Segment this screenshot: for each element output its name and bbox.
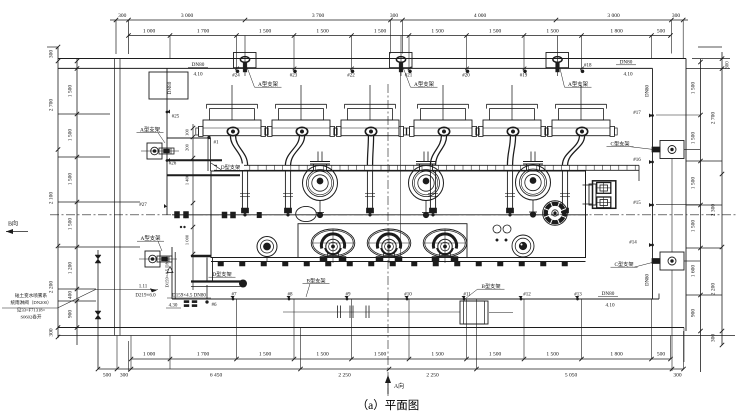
- drop pipe pair 4: [429, 170, 431, 212]
- svg-text:DN80: DN80: [646, 274, 651, 286]
- fin unit 6: [580, 85, 582, 120]
- fan 3: [423, 229, 467, 257]
- platform line below pipe: [283, 311, 460, 313]
- svg-text:#21: #21: [405, 74, 413, 79]
- horizontal centerline: [50, 214, 738, 216]
- svg-text:#27: #27: [139, 203, 147, 208]
- middle pipe: [172, 214, 588, 216]
- dark pipe into machine lower: [167, 174, 240, 176]
- svg-text:A型支架: A型支架: [258, 80, 279, 88]
- grid line x=400.5: [400, 68, 402, 257]
- machine corner step: [211, 163, 223, 171]
- svg-text:2 300: 2 300: [711, 204, 717, 217]
- svg-text:1 500: 1 500: [691, 220, 697, 233]
- svg-text:1 000: 1 000: [143, 352, 156, 358]
- svg-text:C型支架: C型支架: [614, 260, 633, 268]
- svg-text:（a）平面图: （a）平面图: [357, 399, 420, 412]
- svg-text:1 500: 1 500: [374, 29, 387, 35]
- fan 1: [311, 229, 355, 257]
- top pipe DN80: [58, 67, 653, 69]
- svg-text:B向: B向: [8, 220, 18, 228]
- svg-text:#16: #16: [633, 158, 641, 163]
- drop pipe pair 6: [561, 170, 563, 212]
- right riser pipe DN80: [652, 68, 654, 299]
- vertical centerline: [387, 84, 389, 396]
- pump 2: [409, 166, 444, 201]
- svg-text:1 500: 1 500: [489, 352, 502, 358]
- fin unit 2: [300, 85, 302, 120]
- svg-text:A型支架: A型支架: [568, 80, 589, 88]
- fan 2: [367, 229, 411, 257]
- svg-text:1 200: 1 200: [68, 262, 74, 275]
- pipe support marks: [337, 306, 339, 319]
- hoses from fin unit 6: [562, 136, 579, 166]
- svg-text:300: 300: [726, 61, 731, 69]
- small circle pair: [493, 225, 501, 233]
- machine feet: [218, 262, 224, 267]
- lower left suction bar: [206, 258, 208, 281]
- svg-text:D型支架: D型支架: [221, 163, 240, 171]
- internal dimension chain: [192, 124, 194, 290]
- svg-text:4.10: 4.10: [605, 303, 614, 309]
- grid x=672 lower: [671, 159, 673, 253]
- hoses from fin unit 5: [507, 136, 510, 166]
- svg-text:A型支架: A型支架: [140, 126, 161, 134]
- left riser pipe upper: [166, 68, 168, 214]
- svg-text:2 200: 2 200: [49, 281, 55, 294]
- svg-text:#20: #20: [462, 74, 470, 79]
- svg-text:1 500: 1 500: [374, 352, 387, 358]
- svg-text:#25: #25: [172, 115, 180, 120]
- svg-text:D型支架: D型支架: [212, 270, 231, 278]
- svg-text:1 500: 1 500: [68, 218, 74, 231]
- svg-text:300: 300: [118, 13, 127, 19]
- right outer dimension column: [721, 52, 723, 345]
- svg-text:2 700: 2 700: [49, 99, 55, 112]
- svg-text:4 000: 4 000: [474, 13, 487, 19]
- bottom pipe DN80: [172, 298, 659, 300]
- svg-text:1 500: 1 500: [691, 82, 697, 95]
- building bottom axis line: [58, 335, 735, 337]
- left tick stub lines: [58, 113, 110, 115]
- tiny dots: [496, 239, 499, 242]
- pump 3: [516, 165, 551, 200]
- note leader: [2, 307, 58, 309]
- svg-text:1 500: 1 500: [68, 173, 74, 186]
- pipe branch to machine: [167, 137, 208, 139]
- svg-text:5 050: 5 050: [565, 373, 578, 379]
- svg-text:3 000: 3 000: [181, 13, 194, 19]
- fin unit 5: [511, 85, 513, 120]
- svg-text:500: 500: [657, 29, 666, 35]
- svg-text:2 700: 2 700: [711, 112, 717, 125]
- svg-text:900: 900: [68, 310, 74, 319]
- A-type support box 2 on top pipe: [390, 53, 413, 68]
- hoses from fin unit 3: [367, 136, 368, 166]
- svg-text:#17: #17: [633, 111, 641, 116]
- svg-text:B型支架: B型支架: [481, 282, 500, 290]
- svg-text:2 200: 2 200: [711, 283, 717, 296]
- svg-text:#18: #18: [584, 64, 592, 69]
- C-type support box upper: [660, 141, 684, 159]
- dark pipe into machine upper: [167, 159, 222, 161]
- svg-text:#22: #22: [347, 74, 355, 79]
- drop pipe pair 3: [366, 170, 368, 212]
- svg-text:1.11: 1.11: [139, 285, 148, 290]
- svg-text:1 800: 1 800: [610, 29, 623, 35]
- A-type support box 1 on top pipe: [234, 53, 257, 68]
- top extension lines: [115, 20, 117, 54]
- svg-text:1 500: 1 500: [546, 352, 559, 358]
- rail right drop: [638, 165, 640, 181]
- dimension row B bottom: [98, 368, 684, 370]
- handwheel dark circle: [543, 201, 568, 226]
- svg-text:1 600: 1 600: [691, 265, 697, 278]
- drop line to bottom pipe: [206, 285, 208, 299]
- svg-text:300: 300: [711, 334, 717, 343]
- svg-text:1 500: 1 500: [489, 29, 502, 35]
- fan housing box: [298, 224, 467, 258]
- grid stub bottom x=128.6: [128, 341, 130, 372]
- svg-text:1 500: 1 500: [316, 352, 329, 358]
- grid stub bottom right corner: [683, 328, 685, 363]
- svg-text:2 250: 2 250: [426, 373, 439, 379]
- svg-text:6 450: 6 450: [210, 373, 223, 379]
- svg-text:#15: #15: [633, 201, 641, 206]
- anchor marks at pipe start: [184, 301, 189, 303]
- DN80 box left: [149, 72, 188, 99]
- A-type support symbol left lower: [139, 258, 177, 260]
- C-type support box lower: [660, 252, 684, 270]
- svg-text:1 800: 1 800: [610, 352, 623, 358]
- svg-text:500: 500: [657, 352, 666, 358]
- svg-text:#6: #6: [212, 303, 218, 308]
- svg-text:#26: #26: [169, 162, 177, 167]
- svg-text:#14: #14: [629, 241, 637, 246]
- svg-text:C型支架: C型支架: [610, 140, 629, 148]
- building bottom wall: [58, 327, 684, 329]
- svg-text:500: 500: [103, 373, 112, 379]
- fin unit 1: [231, 85, 233, 120]
- svg-text:B型支架: B型支架: [306, 277, 325, 285]
- drop pipe pair 5: [506, 170, 508, 212]
- triangle symbol: [167, 267, 173, 273]
- left outer dimension column: [57, 47, 59, 338]
- valve on pipe x=98 upper: [95, 255, 101, 263]
- svg-text:1 500: 1 500: [316, 29, 329, 35]
- left pipe x=98: [97, 250, 99, 369]
- svg-text:DN80: DN80: [646, 85, 651, 97]
- pump 1: [303, 166, 338, 201]
- machine left edge upper: [207, 138, 209, 171]
- svg-text:4.10: 4.10: [623, 72, 632, 78]
- svg-text:#24: #24: [232, 74, 240, 79]
- svg-text:1 700: 1 700: [197, 29, 210, 35]
- svg-text:1 500: 1 500: [259, 352, 272, 358]
- left riser pipe lower: [171, 247, 173, 299]
- bottom extension lines: [236, 299, 238, 359]
- valve on pipe x=98 lower: [95, 311, 101, 319]
- svg-text:1 500: 1 500: [691, 132, 697, 145]
- label D型支架 on rail: [217, 164, 244, 171]
- svg-text:2 250: 2 250: [338, 373, 351, 379]
- ellipse fitting: [296, 206, 317, 221]
- right inner dimension column: [700, 59, 702, 373]
- svg-text:300: 300: [390, 13, 399, 19]
- A-type support box 3 on top pipe: [546, 53, 569, 68]
- svg-text:#19: #19: [520, 74, 528, 79]
- svg-text:3 000: 3 000: [607, 13, 620, 19]
- small pump bottom right: [512, 235, 534, 257]
- svg-text:统雨淋阀（DN200）: 统雨淋阀（DN200）: [10, 299, 51, 306]
- svg-text:A向: A向: [394, 382, 404, 390]
- svg-text:A型支架: A型支架: [414, 80, 435, 88]
- B-type support box: [460, 301, 488, 324]
- svg-text:300: 300: [673, 373, 682, 379]
- svg-text:#23: #23: [290, 74, 298, 79]
- machine body outline: [211, 171, 586, 258]
- svg-text:1 500: 1 500: [546, 29, 559, 35]
- A-type support symbol left upper: [141, 150, 179, 152]
- fin unit 4: [442, 85, 444, 120]
- svg-text:1 500: 1 500: [691, 177, 697, 190]
- svg-text:#1: #1: [214, 141, 220, 146]
- svg-text:D219×6.0: D219×6.0: [135, 294, 156, 299]
- svg-text:300: 300: [49, 50, 55, 59]
- svg-text:D159×4.5 DN80: D159×4.5 DN80: [165, 256, 170, 288]
- dimension row 1 top: [110, 19, 688, 21]
- svg-text:1 000: 1 000: [185, 234, 190, 245]
- building top wall: [58, 58, 686, 60]
- machine bottom rail: [211, 261, 586, 263]
- target circle fitting: [257, 237, 277, 257]
- dimension row A bottom: [131, 358, 671, 360]
- hoses from fin unit 2: [285, 136, 299, 166]
- drop pipe pair 1: [241, 170, 243, 212]
- svg-text:砝土变水喷雾系: 砝土变水喷雾系: [15, 292, 48, 299]
- main rail header: [214, 164, 639, 166]
- svg-text:300: 300: [120, 373, 129, 379]
- svg-text:300: 300: [49, 328, 55, 337]
- hoses from fin unit 4: [430, 136, 441, 166]
- A direction arrow: [387, 378, 389, 395]
- svg-text:1 500: 1 500: [68, 129, 74, 142]
- valves on middle pipe: [175, 212, 180, 219]
- svg-text:2 100: 2 100: [49, 192, 55, 205]
- svg-text:S0602卷开: S0602卷开: [21, 314, 42, 321]
- svg-text:900: 900: [691, 309, 697, 318]
- left inner dimension column: [76, 59, 78, 346]
- svg-text:1 700: 1 700: [197, 352, 210, 358]
- flange box: [583, 184, 593, 186]
- svg-text:1 500: 1 500: [259, 29, 272, 35]
- svg-text:A型支架: A型支架: [140, 234, 161, 242]
- drop pipe pair 2: [284, 170, 286, 212]
- fin unit 3: [369, 85, 371, 120]
- svg-text:3 700: 3 700: [312, 13, 325, 19]
- right tick stub lines: [686, 160, 722, 162]
- svg-text:1 000: 1 000: [143, 29, 156, 35]
- svg-text:DN80: DN80: [167, 81, 173, 94]
- svg-text:400: 400: [68, 291, 74, 300]
- svg-text:1 500: 1 500: [431, 29, 444, 35]
- svg-text:1 500: 1 500: [68, 85, 74, 98]
- hoses from fin unit 1: [230, 136, 242, 166]
- svg-text:200: 200: [185, 143, 190, 151]
- dimension row 2 top: [129, 35, 671, 37]
- svg-text:4.10: 4.10: [193, 72, 202, 78]
- svg-text:100: 100: [185, 128, 190, 136]
- svg-text:300: 300: [672, 13, 681, 19]
- building right wall: [685, 59, 687, 332]
- svg-text:1 500: 1 500: [431, 352, 444, 358]
- grid line pair left: [114, 59, 116, 336]
- svg-text:#12: #12: [523, 293, 531, 298]
